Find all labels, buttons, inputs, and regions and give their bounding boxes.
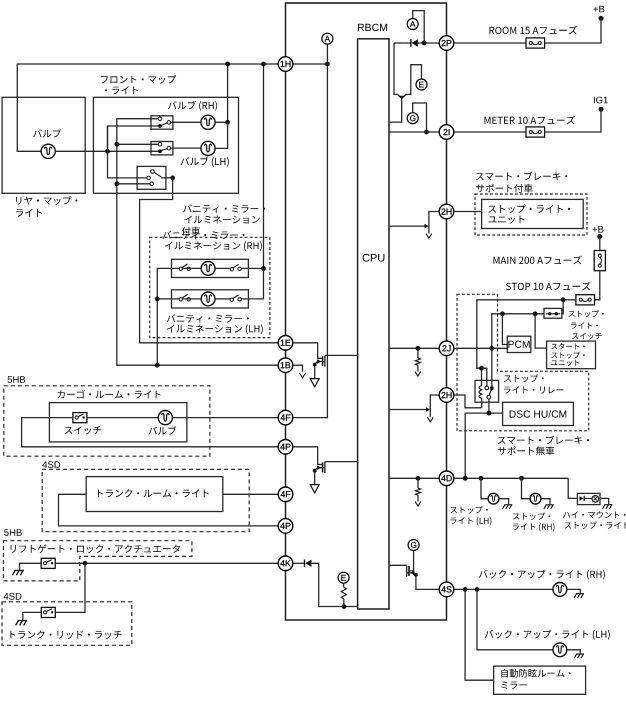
wire switch1 to bulb RH [171, 121, 201, 123]
wire backup RH ground [567, 589, 581, 593]
fuse STOP 10A [576, 295, 595, 305]
trunk lid dashed box [2, 602, 132, 646]
wire 4D to loads [454, 477, 568, 479]
ground 1B [299, 373, 305, 378]
wire 4K to diode [293, 562, 305, 564]
relay blade [489, 390, 491, 396]
label backup LH [485, 630, 610, 640]
junction vanity feed [261, 62, 266, 67]
diode D2 (4K) [304, 560, 306, 568]
vanity mirror illumination RH unit [172, 259, 249, 277]
connector 1H [278, 57, 293, 72]
wire 2J stub2 [417, 365, 419, 371]
wire 2P to room fuse [454, 42, 526, 44]
label rear map light [16, 196, 77, 217]
stop light unit box [482, 199, 584, 228]
emitter arrow [398, 95, 406, 99]
connector 4S [439, 582, 454, 597]
wire meter fuse to IG1 [545, 109, 601, 132]
junction G loop [424, 130, 429, 135]
wire CPU to 2J [389, 347, 439, 349]
wire 2I to meter fuse [454, 131, 526, 133]
label STOP fuse [506, 282, 591, 291]
wire diode anode down [404, 42, 411, 44]
label cargo bulb [149, 426, 177, 435]
wire net A long vertical to 4F [293, 44, 328, 417]
label vanity LH [167, 314, 263, 334]
wire room fuse to +B [545, 18, 601, 43]
relay contact upper [485, 386, 489, 390]
transistor Q1 [313, 355, 358, 378]
label bulb (LH) [181, 157, 229, 167]
DSC HU/CM box [503, 402, 574, 425]
connector 4K [278, 556, 293, 571]
wire stop fuse to relay feed [477, 300, 563, 368]
resistor R-2J [415, 358, 420, 365]
wire diode D1 to 2P [418, 42, 439, 44]
wire trunk light to 4P [59, 494, 279, 526]
wire to auto dimming mirror [465, 589, 494, 680]
label IG1 [594, 97, 608, 104]
wire 1H to net A vertical [293, 63, 328, 65]
label PCM [508, 341, 529, 348]
label +B (room) [594, 6, 605, 13]
bulb backup RH [553, 583, 567, 597]
bulb map RH [201, 115, 215, 129]
wire 2H lower elbow [430, 395, 439, 417]
node A (map feed) [322, 33, 333, 44]
vanity mirror illumination LH unit [172, 290, 249, 308]
label DSC HU/CM [510, 410, 567, 418]
vanity dashed box [150, 237, 270, 337]
switch map LH (switch2) [151, 142, 173, 155]
label backup RH [479, 570, 605, 580]
node E (lower) [338, 572, 349, 583]
bulb stop light RH [530, 493, 541, 504]
wire switch common vertical to door position [108, 126, 148, 178]
wire G loop [413, 103, 427, 132]
wire stop RH to ground [541, 499, 550, 505]
junction feed top [225, 62, 230, 67]
stop light unit dashed box [475, 194, 587, 235]
ground stop LH [502, 505, 512, 509]
cargo dashed box [4, 386, 210, 456]
junction stop RH [519, 476, 524, 481]
junction switch3 bottom contact [114, 181, 119, 186]
connector 4F (cargo) [278, 410, 293, 425]
bulb backup LH [553, 643, 567, 657]
label MAIN fuse [494, 256, 582, 265]
junction 4D [416, 476, 421, 481]
node E (upper) [416, 79, 427, 90]
label stop light unit [488, 205, 570, 224]
wire vanity right down to LH [248, 268, 263, 299]
wire switch1 top contact net [117, 119, 279, 366]
node G (lower) [408, 540, 419, 551]
resistor R-4D [415, 488, 420, 495]
node A (upper) [407, 19, 418, 30]
wire 4S to backup RH [454, 588, 553, 590]
PCM box [507, 336, 531, 352]
junction stop sw to SSU [533, 311, 538, 316]
fuse MAIN 200A [594, 251, 605, 271]
wire 2P top feed [286, 2, 447, 4]
label smart brake none [498, 436, 589, 456]
start stop unit box [547, 341, 596, 369]
label bulb (rear) [33, 129, 61, 138]
wire CPU to 4D [389, 477, 439, 479]
bulb stop light LH [488, 493, 499, 504]
node G (upper) [407, 113, 418, 124]
arrow down 2H lower [427, 417, 433, 422]
junction 1H net [325, 62, 330, 67]
switch map RH [151, 116, 173, 129]
connector 4P (cargo) [278, 440, 293, 455]
wire DSC to 4D net [465, 413, 502, 478]
junction vanity LH left [155, 297, 160, 302]
wire to high mount stop light [568, 478, 577, 498]
label high mount [563, 511, 626, 529]
label liftgate lock actuator [11, 544, 181, 553]
connector 2H (lower) [439, 388, 454, 403]
connector 2P [439, 36, 454, 51]
wire trunk lid ground to switch [23, 612, 42, 620]
label smart brake supported [476, 172, 567, 193]
liftgate switch [41, 558, 55, 568]
wire 1B to ground [293, 365, 303, 372]
high mount stop light box [577, 493, 600, 504]
smart brake none dashed outline [457, 294, 589, 431]
junction switch2 contact [114, 142, 119, 147]
wire 2J to PCM [454, 347, 508, 349]
wire 1E to gate [293, 343, 322, 359]
label stop light switch [569, 310, 604, 339]
wire CPU out 2H lower [389, 409, 427, 411]
wire E loop [405, 65, 421, 95]
wire to switch2 top contact [117, 143, 159, 145]
wire anode to emitter junction [394, 42, 404, 44]
fuse ROOM 15A [526, 38, 545, 48]
label cargo switch [65, 426, 102, 434]
label vanity condition [182, 204, 265, 235]
label vanity RH [163, 231, 262, 251]
wire to stop light RH [522, 478, 531, 498]
resistor R-E [341, 587, 346, 599]
label CPU [363, 254, 385, 262]
wire switch3 output to 1E [140, 178, 279, 343]
cargo solid box [49, 403, 187, 442]
wire stop switch left [492, 314, 544, 349]
wire bulb LH to feed vertical [215, 122, 228, 148]
label RBCM [358, 24, 387, 31]
wire trunk lid switch up to junction [55, 563, 85, 612]
wire 2J junction to relay pivot [491, 348, 493, 388]
connector 2I [439, 125, 454, 140]
bulb map LH [201, 141, 215, 155]
arrow down 2H upper [426, 234, 432, 239]
junction DSC wire [487, 411, 492, 416]
ground stop RH [544, 505, 554, 509]
connector 4F (trunk) [278, 487, 293, 502]
arrow 2H lower [426, 407, 430, 412]
bulb rear map light [41, 144, 55, 158]
wire +B to main fuse [599, 237, 601, 251]
transistor Q2 [313, 462, 358, 485]
wire high mount to ground [600, 498, 609, 504]
label 4SD (trunk) [42, 461, 60, 468]
connector 1B [278, 358, 293, 373]
wire to stop light LH [481, 478, 488, 498]
ground trunk lid switch [16, 621, 28, 626]
wire A loop [413, 11, 425, 43]
ground high mount [603, 505, 613, 509]
wire 2H to stop light unit [454, 211, 482, 213]
junction main-switch2 [105, 149, 110, 154]
label 5HB (cargo) [8, 376, 26, 383]
junction 4D DSC [463, 476, 468, 481]
switch map main (door/off) [137, 166, 170, 189]
label stop light LH [450, 506, 491, 525]
wire 4P to cargo switch [22, 418, 279, 447]
wire liftgate ground to switch [20, 563, 42, 570]
label bulb (RH) [168, 101, 217, 111]
wire to start stop unit [535, 314, 547, 348]
auto dimming mirror box [494, 666, 586, 694]
trunk lid switch [41, 607, 55, 617]
junction mirror [463, 587, 468, 592]
wire 4D stub2 [417, 495, 419, 501]
junction 2J relay [489, 346, 494, 351]
junction liftgate/trunk-lid [83, 561, 88, 566]
junction relay feed [479, 366, 484, 371]
junction stop fuse [561, 297, 566, 302]
junction backup LH [475, 587, 480, 592]
ground backup LH [574, 654, 584, 658]
wire 2J stub [417, 348, 419, 358]
wire main fuse to stop fuse [595, 271, 600, 300]
arrow down 2J [415, 372, 421, 377]
label METER fuse [485, 116, 576, 125]
wire vanity feed from room net [263, 64, 265, 268]
stop light switch contacts [546, 312, 560, 315]
terminal IG1 [599, 107, 604, 112]
wire 2H lower to relay coil [454, 395, 482, 408]
connector 1E [278, 336, 293, 351]
wire cargo bulb to 4F [172, 417, 278, 419]
CPU box [358, 39, 389, 609]
junction stop sw to PCM [500, 311, 505, 316]
wire vanity left net [157, 268, 171, 365]
wire 4D stub [417, 478, 419, 488]
ground backup RH [574, 594, 584, 598]
terminal +B main [597, 234, 602, 239]
label stop light relay [504, 374, 564, 393]
ground Q2 source [310, 485, 319, 493]
arrow 2H upper [425, 224, 429, 229]
wire relay out to DSC wire [488, 399, 490, 413]
wire diode to CPU [312, 563, 358, 606]
trunk dashed box [42, 469, 249, 531]
label 4SD (trunk lid) [4, 593, 22, 600]
wire relay feed to switch contact [482, 368, 487, 386]
label stop light RH [513, 513, 555, 532]
connector 2J [439, 341, 454, 356]
rear map light box [2, 97, 85, 193]
wire 4P to gate [293, 447, 322, 465]
wire +B room feed to rear bulb [17, 64, 278, 151]
fuse METER 10A [526, 127, 545, 137]
ground Q1 source [310, 379, 319, 387]
wire to switch3 bottom contact [117, 183, 150, 185]
junction bulb RH [225, 120, 230, 125]
relay contact lower [487, 395, 491, 399]
label +B (main) [593, 226, 604, 233]
connector 2H (upper) [439, 204, 454, 219]
wire switch2 to bulb LH [171, 147, 201, 149]
wire stop LH to ground [499, 499, 509, 505]
label trunk lid latch [11, 631, 122, 639]
wire to backup LH [477, 589, 553, 649]
label trunk room light [98, 489, 209, 497]
junction switch3 output [170, 176, 175, 181]
label ROOM fuse [490, 26, 578, 35]
bulb cargo [158, 411, 172, 425]
liftgate dashed outline [3, 541, 192, 581]
junction vanity to 1B wire [155, 363, 160, 368]
stop light relay box [475, 380, 499, 402]
junction stop LH [479, 476, 484, 481]
wire junction down to stop switch [562, 300, 563, 314]
RBCM outer box [286, 3, 447, 620]
label cargo room light [58, 390, 161, 399]
junction E resistor [342, 604, 347, 609]
ground liftgate switch [12, 570, 24, 575]
wire 2H upper elbow [429, 212, 439, 234]
wire CPU out 2H upper [389, 225, 425, 227]
wire resistor to junction [343, 599, 345, 607]
terminal +B room [599, 16, 604, 21]
wire stop fuse to junction [563, 299, 576, 301]
wire vanity RH right [248, 267, 263, 269]
trunk room light box [86, 477, 223, 512]
label front map light [101, 75, 176, 94]
wire rear bulb to map switch LH contact [55, 150, 160, 152]
junction 2P diode [422, 41, 427, 46]
connector 4P (trunk) [278, 519, 293, 534]
wire G to gate [410, 551, 414, 571]
front map light box [93, 97, 238, 193]
junction 2J [416, 346, 421, 351]
label 5HB (liftgate) [4, 529, 22, 536]
relay coil [479, 368, 482, 408]
stop light switch box [544, 308, 562, 318]
junction vanity RH [261, 266, 266, 271]
label start stop unit [551, 343, 584, 366]
wire bulbs to feed vertical [215, 64, 228, 122]
wire branch to switch RH contact [108, 126, 161, 151]
wire backup LH ground [567, 650, 581, 654]
transistor Q3 [389, 565, 439, 589]
arrow down 4D [415, 502, 421, 507]
label auto dimming mirror [501, 669, 570, 689]
wire trunk light to 4F [223, 493, 279, 495]
wire E to resistor [343, 583, 345, 587]
diode D1 (2P) [410, 39, 412, 47]
wire emitter left elbow [394, 43, 398, 94]
wire vanity LH left stub [157, 298, 171, 300]
wire to PCM top [502, 314, 507, 345]
cargo switch [73, 413, 87, 423]
wire emitter to CPU [389, 98, 402, 122]
connector 4D [439, 471, 454, 486]
relay pivot [490, 386, 494, 390]
wire CPU to 2I [389, 131, 439, 133]
wire cargo switch to bulb [87, 417, 158, 419]
wire liftgate switch to 4K [55, 562, 278, 564]
